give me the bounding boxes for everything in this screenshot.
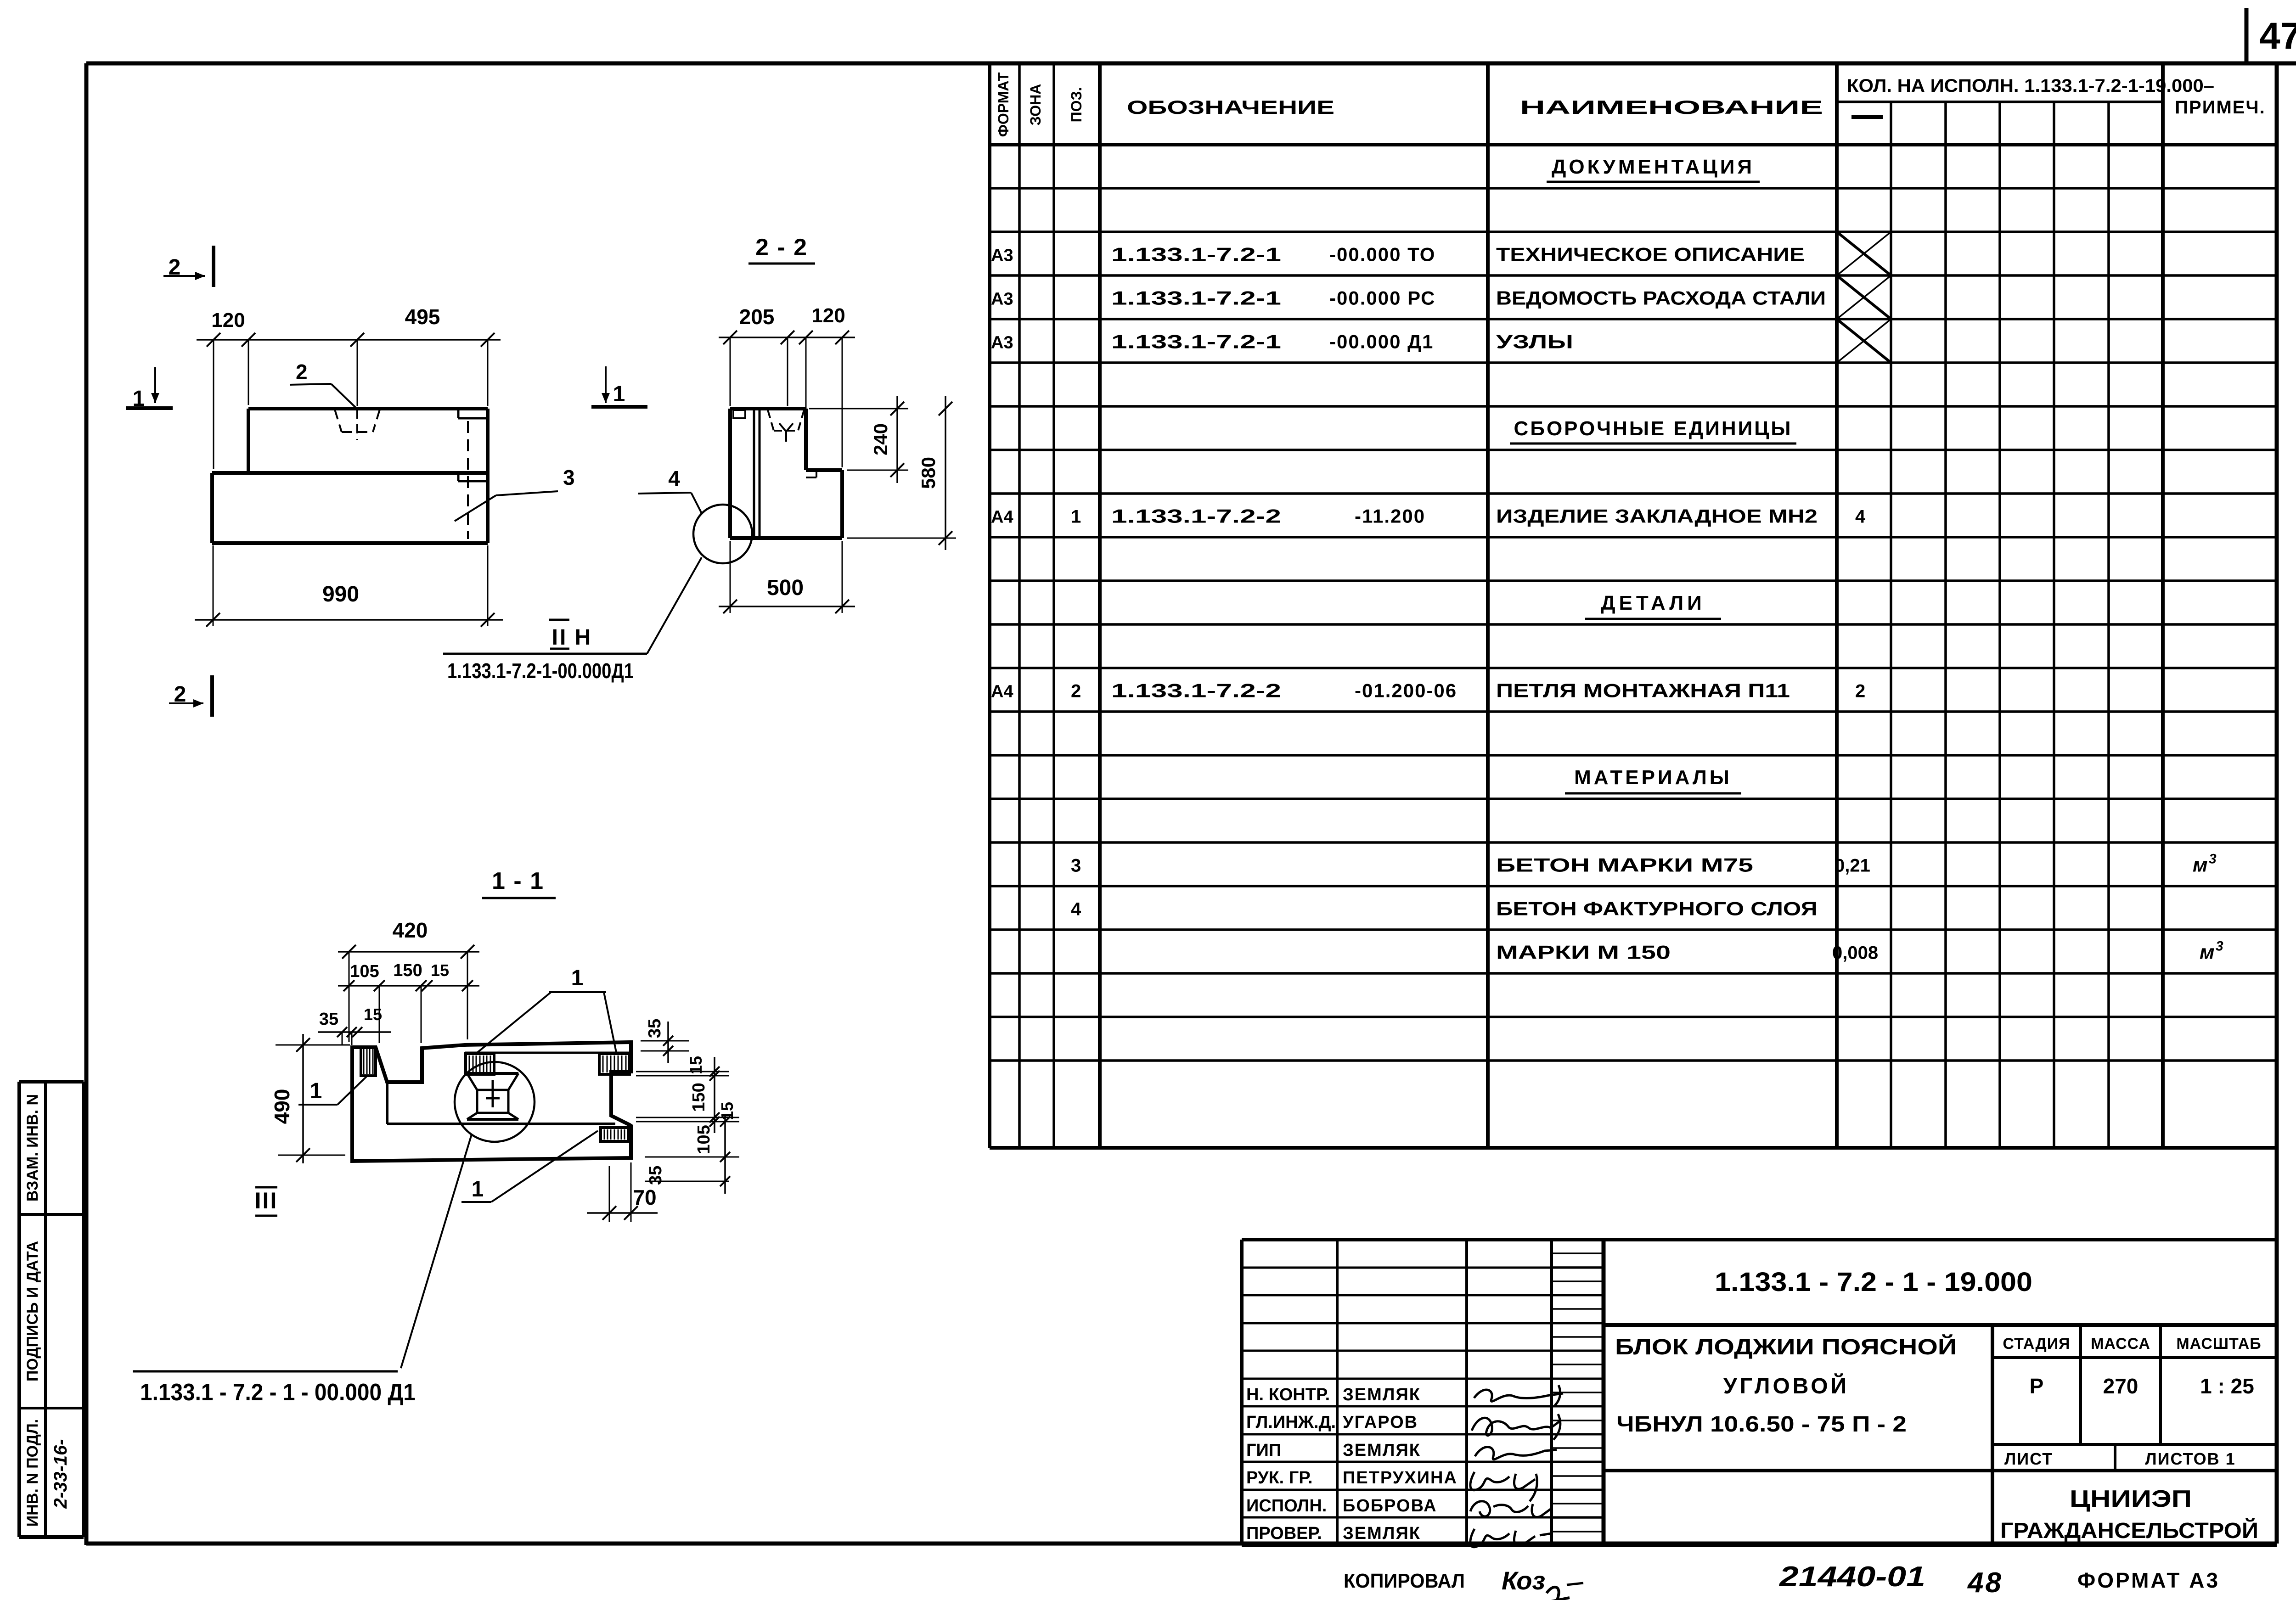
svg-text:УГЛОВОЙ: УГЛОВОЙ (1723, 1373, 1849, 1398)
svg-text:0,008: 0,008 (1832, 943, 1878, 963)
svg-text:2: 2 (1071, 681, 1081, 702)
svg-text:3: 3 (2209, 852, 2217, 867)
svg-text:НАИМЕНОВАНИЕ: НАИМЕНОВАНИЕ (1520, 96, 1823, 118)
title block stage value Р (2030, 1374, 2044, 1398)
table header НАИМЕНОВАНИЕ (1520, 96, 1823, 118)
svg-text:МАСШТАБ: МАСШТАБ (2176, 1335, 2261, 1353)
svg-text:3: 3 (563, 466, 575, 489)
row heading ДЕТАЛИ (1585, 592, 1721, 619)
svg-text:ЗЕМЛЯК: ЗЕМЛЯК (1343, 1524, 1421, 1543)
table header КОЛ. НА ИСПОЛН. (1847, 76, 2214, 96)
section 1-1 slab bottom line (387, 1123, 615, 1125)
title block ЛИСТОВ 1 cell (2145, 1449, 2235, 1468)
section 1-1 detail circle (455, 1062, 535, 1142)
row heading ДОКУМЕНТАЦИЯ (1547, 156, 1760, 182)
table row: А3 1.133.1-7.2-1 -00.000 Д1 УЗЛЫ (991, 331, 1573, 353)
crossed-out quantity cell row 3 (1837, 232, 1891, 275)
svg-text:120: 120 (211, 309, 245, 331)
section 2-2 keyway (dashed) with Y mark (768, 410, 804, 442)
section 2-2 dimension 580 (847, 396, 956, 550)
plan view of corner loggia block (212, 409, 488, 543)
plan dimension 120 and 495 (197, 305, 501, 469)
svg-text:1: 1 (613, 382, 625, 406)
section 2-2 dimension 500 (719, 541, 855, 613)
svg-text:1: 1 (1071, 507, 1081, 527)
row heading МАТЕРИАЛЫ (1565, 766, 1741, 793)
svg-text:0,21: 0,21 (1835, 856, 1870, 876)
svg-text:240: 240 (870, 423, 891, 455)
bottom handwritten 48 (1967, 1567, 2003, 1599)
svg-text:-00.000 РС: -00.000 РС (1329, 287, 1435, 309)
section 1-1 leader label 1 (top) (478, 966, 616, 1052)
section 2-2 outline (730, 409, 842, 538)
svg-text:РУК. ГР.: РУК. ГР. (1246, 1468, 1313, 1488)
svg-text:2: 2 (296, 360, 308, 384)
svg-text:ГРАЖДАНСЕЛЬСТРОЙ: ГРАЖДАНСЕЛЬСТРОЙ (2000, 1518, 2258, 1543)
svg-text:ДЕТАЛИ: ДЕТАЛИ (1601, 592, 1705, 614)
specification table grid (990, 63, 2277, 1148)
section 1-1 key block D (hatched) (601, 1128, 628, 1141)
svg-text:35: 35 (646, 1166, 665, 1185)
svg-text:-11.200: -11.200 (1355, 505, 1425, 527)
table header ЗОНА (1027, 84, 1044, 126)
title block row Н. КОНТР. ЗЕМЛЯК (1246, 1385, 1421, 1404)
section 2-2 title (748, 234, 815, 264)
svg-text:БЛОК ЛОДЖИИ ПОЯСНОЙ: БЛОК ЛОДЖИИ ПОЯСНОЙ (1615, 1334, 1957, 1359)
stamp label ПОДПИСЬ И ДАТА (24, 1241, 41, 1381)
svg-text:1 : 25: 1 : 25 (2200, 1374, 2254, 1398)
bottom handwritten Коз- (1502, 1566, 1583, 1600)
svg-text:ПРОВЕР.: ПРОВЕР. (1246, 1524, 1322, 1543)
signature squiggle ИСПОЛН (1470, 1501, 1551, 1517)
section 2-2 facing layer lines (754, 410, 760, 537)
table header ПОЗ. (1068, 87, 1085, 123)
svg-text:-01.200-06: -01.200-06 (1355, 680, 1457, 702)
svg-text:205: 205 (739, 305, 775, 329)
svg-text:ЗОНА: ЗОНА (1027, 84, 1044, 126)
title block document number 1.133.1-7.2-1-19.000 (1715, 1267, 2032, 1297)
svg-text:III: III (255, 1188, 278, 1213)
signature squiggle ПРОВЕР (1470, 1529, 1552, 1547)
svg-text:1: 1 (310, 1079, 322, 1103)
svg-text:4: 4 (668, 466, 680, 490)
svg-text:120: 120 (811, 304, 845, 327)
table row: А3 1.133.1-7.2-1 -00.000 РС ВЕДОМОСТЬ РАСХОДА СТАЛИ (991, 287, 1826, 309)
row heading СБОРОЧНЫЕ ЕДИНИЦЫ (1510, 417, 1796, 444)
svg-text:35: 35 (645, 1019, 664, 1038)
svg-text:1.133.1-7.2-1-00.000Д1: 1.133.1-7.2-1-00.000Д1 (447, 659, 634, 683)
svg-text:ЗЕМЛЯК: ЗЕМЛЯК (1343, 1385, 1421, 1404)
section 1-1 dimension 420 (338, 918, 479, 1042)
plan leader label 2 (290, 360, 357, 409)
svg-text:1.133.1 - 7.2 - 1 - 00.000 Д1: 1.133.1 - 7.2 - 1 - 00.000 Д1 (140, 1379, 416, 1406)
section 1-1 dimension 35 (right top, rotated) (641, 1019, 689, 1063)
svg-text:-00.000 Д1: -00.000 Д1 (1329, 331, 1434, 353)
svg-text:ИНВ. N ПОДЛ.: ИНВ. N ПОДЛ. (24, 1419, 41, 1527)
title block row ИСПОЛН. БОБРОВА (1246, 1496, 1437, 1516)
svg-text:Коз: Коз (1502, 1566, 1545, 1595)
section 1-1 key block A (hatched) (361, 1047, 376, 1076)
svg-text:Р: Р (2030, 1374, 2044, 1398)
svg-text:МАССА: МАССА (2091, 1335, 2150, 1353)
svg-text:4: 4 (1071, 899, 1081, 920)
svg-text:ДОКУМЕНТАЦИЯ: ДОКУМЕНТАЦИЯ (1552, 156, 1755, 178)
svg-text:А4: А4 (991, 508, 1013, 527)
svg-text:1.133.1-7.2-2: 1.133.1-7.2-2 (1111, 680, 1281, 702)
section 1-1 keyway detail (frustum) (467, 1073, 518, 1119)
svg-text:4: 4 (1855, 507, 1866, 527)
svg-text:ОБОЗНАЧЕНИЕ: ОБОЗНАЧЕНИЕ (1127, 96, 1334, 118)
title block organisation ЦНИИЭП ГРАЖДАНСЕЛЬСТРОЙ (2000, 1486, 2258, 1543)
plan view hidden edge (dashed) (467, 421, 469, 539)
svg-text:2 - 2: 2 - 2 (755, 234, 808, 261)
svg-text:УГАРОВ: УГАРОВ (1343, 1413, 1418, 1432)
svg-text:1.133.1-7.2-1: 1.133.1-7.2-1 (1111, 244, 1281, 265)
svg-text:1.133.1-7.2-1: 1.133.1-7.2-1 (1111, 287, 1281, 309)
svg-text:420: 420 (393, 918, 428, 942)
header dash in first qty column (1851, 115, 1883, 119)
svg-text:ГЛ.ИНЖ.Д.: ГЛ.ИНЖ.Д. (1246, 1413, 1336, 1432)
svg-text:21440-01: 21440-01 (1779, 1561, 1925, 1593)
svg-text:1: 1 (571, 966, 584, 990)
svg-text:580: 580 (917, 457, 939, 489)
svg-text:1 - 1: 1 - 1 (492, 868, 544, 894)
svg-text:150: 150 (689, 1083, 709, 1112)
svg-text:БЕТОН МАРКИ М75: БЕТОН МАРКИ М75 (1496, 854, 1753, 876)
svg-text:ПОДПИСЬ И ДАТА: ПОДПИСЬ И ДАТА (24, 1241, 41, 1381)
section 2-2 right part notch (806, 470, 816, 477)
section 1-1 detail callout III (133, 1134, 472, 1406)
svg-text:ИЗДЕЛИЕ ЗАКЛАДНОЕ МН2: ИЗДЕЛИЕ ЗАКЛАДНОЕ МН2 (1496, 505, 1818, 527)
title block row ГИП ЗЕМЛЯК (1246, 1441, 1421, 1460)
svg-text:35: 35 (319, 1010, 338, 1029)
left margin stamp box (19, 1082, 84, 1537)
table header ФОРМАТ (995, 72, 1012, 137)
svg-text:ЧБНУЛ 10.6.50 - 75 П - 2: ЧБНУЛ 10.6.50 - 75 П - 2 (1616, 1412, 1907, 1437)
svg-text:ТЕХНИЧЕСКОЕ ОПИСАНИЕ: ТЕХНИЧЕСКОЕ ОПИСАНИЕ (1496, 244, 1805, 265)
svg-text:270: 270 (2103, 1374, 2138, 1398)
svg-text:3: 3 (2216, 939, 2223, 954)
svg-text:ПЕТЛЯ МОНТАЖНАЯ П11: ПЕТЛЯ МОНТАЖНАЯ П11 (1496, 680, 1790, 702)
section 2-2 top-left notch (733, 410, 745, 418)
plan leader label 3 (455, 466, 575, 521)
bottom note КОПИРОВАЛ (1344, 1570, 1465, 1592)
svg-text:2-33-16-: 2-33-16- (51, 1439, 71, 1509)
section 1-1 title (482, 868, 556, 898)
section 1-1 key block C (hatched) (599, 1054, 630, 1074)
svg-text:ГИП: ГИП (1246, 1441, 1281, 1460)
plan view keyway recess (dashed) (335, 410, 380, 440)
section 2-2 detail callout II Н (443, 557, 702, 683)
svg-text:150: 150 (393, 961, 422, 980)
svg-text:УЗЛЫ: УЗЛЫ (1496, 331, 1573, 353)
svg-text:Н. КОНТР.: Н. КОНТР. (1246, 1385, 1330, 1404)
svg-text:БОБРОВА: БОБРОВА (1343, 1496, 1437, 1516)
svg-text:495: 495 (405, 305, 440, 329)
svg-text:1.133.1-7.2-1: 1.133.1-7.2-1 (1111, 331, 1281, 353)
title block scale value 1:25 (2200, 1374, 2254, 1398)
table row: А4 2 ПЕТЛЯ МОНТАЖНАЯ П11 (991, 680, 1865, 702)
bottom note ФОРМАТ А3 (2077, 1568, 2220, 1592)
section 1-1 facing layer line (465, 1052, 631, 1054)
title block name БЛОК ЛОДЖИИ ПОЯСНОЙ УГЛОВОЙ (1615, 1334, 1957, 1437)
svg-text:СБОРОЧНЫЕ ЕДИНИЦЫ: СБОРОЧНЫЕ ЕДИНИЦЫ (1514, 417, 1793, 440)
title block ЛИСТ cell (2004, 1449, 2053, 1468)
section 1-1 dimensions 105 150 15 (338, 961, 479, 1043)
svg-text:3: 3 (1071, 856, 1081, 876)
table header ОБОЗНАЧЕНИЕ (1127, 96, 1334, 118)
bottom handwritten 21440-01 (1779, 1561, 1925, 1593)
svg-text:ЛИСТОВ 1: ЛИСТОВ 1 (2145, 1449, 2235, 1468)
section mark 1 (right) (591, 366, 647, 407)
section 1-1 dimension 490 (left, rotated) (270, 1034, 350, 1163)
signature squiggle Н.КОНТР (1474, 1385, 1563, 1405)
svg-text:ЦНИИЭП: ЦНИИЭП (2070, 1486, 2192, 1512)
svg-text:А3: А3 (991, 246, 1013, 265)
section 2-2 detail circle (693, 505, 752, 563)
svg-text:СТАДИЯ: СТАДИЯ (2003, 1335, 2070, 1353)
section 1-1 wall inner face (386, 1082, 388, 1124)
svg-text:II: II (552, 625, 568, 650)
table row: МАРКИ М150 (1496, 939, 2223, 964)
section 1-1 leader label 1 (left) (298, 1077, 366, 1105)
section 1-1 dimensions 15 150 15 (right, rotated) (636, 1056, 739, 1133)
svg-text:МАРКИ М 150: МАРКИ М 150 (1496, 942, 1671, 963)
svg-text:105: 105 (694, 1125, 714, 1154)
svg-text:м: м (2200, 941, 2215, 964)
svg-text:ЛИСТ: ЛИСТ (2004, 1449, 2053, 1468)
section 2-2 dimension 205 and 120 (719, 304, 855, 467)
stamp handwritten 2-33-16- (51, 1439, 71, 1509)
svg-text:МАТЕРИАЛЫ: МАТЕРИАЛЫ (1574, 766, 1732, 789)
svg-text:ЗЕМЛЯК: ЗЕМЛЯК (1343, 1441, 1421, 1460)
title block МАССА header (2091, 1335, 2150, 1353)
table row: А4 1 ИЗДЕЛИЕ ЗАКЛАДНОЕ МН2 (991, 505, 1866, 527)
page number 47 with tick (2246, 8, 2296, 64)
svg-text:15: 15 (687, 1056, 705, 1074)
section 1-1 key block B (hatched) (466, 1054, 494, 1074)
table row: 3 БЕТОН МАРКИ М75 (1071, 852, 2217, 876)
stamp label ИНВ. N ПОДЛ. (24, 1419, 41, 1527)
svg-text:ИСПОЛН.: ИСПОЛН. (1246, 1496, 1327, 1516)
svg-text:ВЕДОМОСТЬ РАСХОДА СТАЛИ: ВЕДОМОСТЬ РАСХОДА СТАЛИ (1496, 287, 1826, 309)
plan dimension 990 (195, 545, 503, 627)
title block row ГЛ.ИНЖ.Д. УГАРОВ (1246, 1413, 1418, 1432)
stamp label ВЗАМ. ИНВ. N (24, 1094, 41, 1201)
section 1-1 outline (352, 1042, 631, 1161)
section 2-2 leader label 4 (638, 466, 702, 513)
title block row РУК. ГР. ПЕТРУХИНА (1246, 1468, 1458, 1488)
table row: А3 1.133.1-7.2-1 -00.000 ТО ТЕХНИЧЕСКОЕ ОПИСАНИЕ (991, 244, 1805, 265)
svg-text:1.133.1 - 7.2 - 1 - 19.000: 1.133.1 - 7.2 - 1 - 19.000 (1715, 1267, 2032, 1297)
crossed-out quantity cell row 4 (1837, 275, 1891, 319)
svg-text:500: 500 (767, 576, 804, 600)
table row: 4 БЕТОН ФАКТУРНОГО СЛОЯ (1071, 898, 1818, 920)
signature squiggle РУК.ГР (1470, 1472, 1537, 1501)
title block mass value 270 (2103, 1374, 2138, 1398)
svg-text:ВЗАМ. ИНВ. N: ВЗАМ. ИНВ. N (24, 1094, 41, 1201)
svg-text:А3: А3 (991, 333, 1013, 353)
table header ПРИМЕЧ. (2175, 97, 2265, 118)
section 1-1 dimensions 35 and 15 (upper left) (318, 1005, 391, 1045)
section 1-1 dimensions 105 and 35 (right bottom, rotated) (645, 1116, 739, 1194)
svg-text:15: 15 (718, 1102, 737, 1120)
svg-text:БЕТОН ФАКТУРНОГО СЛОЯ: БЕТОН ФАКТУРНОГО СЛОЯ (1496, 898, 1818, 920)
section mark 2 (top) (163, 246, 214, 287)
svg-text:ФОРМАТ: ФОРМАТ (995, 72, 1012, 137)
svg-text:А4: А4 (991, 682, 1013, 702)
title block СТАДИЯ header (2003, 1335, 2070, 1353)
section 2-2 dimension 240 (809, 396, 908, 483)
section mark 1 (left) (126, 367, 173, 411)
svg-text:15: 15 (364, 1005, 382, 1024)
svg-text:А3: А3 (991, 290, 1013, 309)
svg-text:КОПИРОВАЛ: КОПИРОВАЛ (1344, 1570, 1465, 1592)
svg-text:ПОЗ.: ПОЗ. (1068, 87, 1085, 123)
svg-text:КОЛ. НА ИСПОЛН. 1.133.1-7.2-1-: КОЛ. НА ИСПОЛН. 1.133.1-7.2-1-19.000– (1847, 76, 2214, 96)
svg-text:ФОРМАТ А3: ФОРМАТ А3 (2077, 1568, 2220, 1592)
svg-text:Н: Н (575, 625, 591, 650)
section 1-1 leader label 1 (bottom) (461, 1131, 598, 1202)
svg-text:990: 990 (322, 582, 359, 606)
svg-text:15: 15 (431, 961, 449, 980)
section mark 2 (bottom) (169, 675, 212, 717)
crossed-out quantity cell row 5 (1837, 319, 1891, 363)
svg-text:м: м (2193, 854, 2208, 876)
svg-text:1.133.1-7.2-2: 1.133.1-7.2-2 (1111, 505, 1281, 527)
svg-text:47: 47 (2259, 15, 2296, 57)
svg-text:-00.000 ТО: -00.000 ТО (1329, 244, 1435, 265)
svg-text:2: 2 (1855, 681, 1865, 702)
svg-text:ПРИМЕЧ.: ПРИМЕЧ. (2175, 97, 2265, 118)
svg-text:ПЕТРУХИНА: ПЕТРУХИНА (1343, 1468, 1458, 1488)
svg-text:1: 1 (472, 1177, 484, 1201)
svg-text:490: 490 (270, 1089, 294, 1124)
svg-text:105: 105 (350, 962, 379, 981)
svg-text:70: 70 (633, 1185, 656, 1209)
signature squiggle ГЛ.ИНЖ (1472, 1414, 1561, 1440)
title block МАСШТАБ header (2176, 1335, 2261, 1353)
signature squiggle ГИП (1475, 1447, 1557, 1460)
svg-text:48: 48 (1967, 1567, 2003, 1599)
title block outer box (1242, 1240, 2277, 1545)
title block grid (1242, 1240, 2277, 1545)
section 1-1 dimension 70 (587, 1162, 658, 1222)
title block row ПРОВЕР. ЗЕМЛЯК (1246, 1524, 1421, 1543)
